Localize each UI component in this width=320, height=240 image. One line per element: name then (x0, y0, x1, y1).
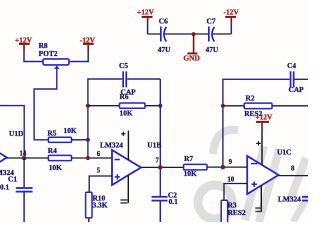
svg-text:C4: C4 (287, 61, 296, 70)
resistor R4 10K (48, 146, 72, 172)
svg-text:+12V: +12V (255, 112, 273, 121)
wire top rail (148, 33, 232, 35)
watermark (198, 130, 308, 222)
svg-text:C6: C6 (159, 17, 168, 26)
svg-text:C5: C5 (119, 61, 128, 70)
node output U1B (158, 165, 163, 170)
wire U1B feedback left rail (88, 79, 160, 158)
wire -12V to rail (230, 24, 232, 34)
capacitor C5 CAP (119, 61, 136, 97)
svg-text:U1C: U1C (277, 148, 291, 157)
capacitor C2 0.1 (152, 191, 179, 222)
svg-text:R7: R7 (184, 154, 193, 163)
resistor R7 10K (184, 154, 207, 178)
svg-text:10: 10 (227, 176, 234, 183)
power -12V (pot right) (80, 36, 96, 52)
svg-text:0.1: 0.1 (0, 183, 10, 192)
op-amp U1B LM324 (100, 141, 161, 185)
wire R4 right / pin6 (72, 157, 113, 159)
svg-text:POT2: POT2 (39, 49, 58, 58)
capacitor C1 0.1 (0, 158, 33, 222)
node R2 left (221, 104, 225, 108)
svg-text:R4: R4 (48, 146, 57, 155)
potentiometer R8 POT2 (39, 41, 69, 69)
wire R7 right / pin9 (207, 166, 247, 168)
svg-text:CAP: CAP (289, 85, 305, 94)
svg-text:GND: GND (183, 54, 199, 63)
resistor R10 3.3K (86, 192, 108, 222)
wire R5 right (72, 139, 88, 141)
wire U1B feedback right rail down to C2 (159, 79, 161, 196)
svg-text:U1D: U1D (9, 129, 23, 138)
capacitor C7 47U (206, 17, 219, 55)
node R6 left (86, 104, 90, 108)
U1B V- stub (120, 175, 128, 204)
svg-text:0.1: 0.1 (169, 197, 179, 206)
capacitor C6 47U (158, 17, 171, 55)
junction GND on rail (192, 32, 196, 36)
svg-text:8: 8 (291, 165, 295, 172)
wire pot right (69, 51, 88, 62)
power +12V (C6 left) (137, 8, 155, 24)
wire U1D feedback (0, 106, 24, 158)
svg-text:U1B: U1B (147, 141, 161, 150)
ground GND (183, 34, 199, 63)
wire U1C feedback left rail (223, 79, 308, 167)
wire U1C output pin8 (279, 175, 309, 177)
svg-text:R6: R6 (120, 92, 129, 101)
wire pin10 / R3 (224, 184, 247, 201)
power +12V (U1C) (255, 112, 273, 131)
svg-text:3.3K: 3.3K (93, 200, 108, 209)
resistor R2 RES2 (223, 94, 308, 119)
resistor R6 10K (88, 92, 160, 117)
svg-text:10K: 10K (49, 163, 62, 172)
svg-text:C7: C7 (207, 17, 216, 26)
svg-text:47U: 47U (206, 45, 219, 54)
svg-text:5: 5 (97, 168, 101, 175)
svg-text:R5: R5 (47, 128, 56, 137)
capacitor C3 (clipped at right edge) (302, 196, 308, 202)
svg-text:6: 6 (97, 151, 101, 158)
svg-text:10K: 10K (120, 109, 133, 118)
wire pot wiper (34, 69, 57, 140)
node pin9 (221, 165, 226, 170)
svg-text:+12V: +12V (137, 8, 155, 17)
svg-text:C1: C1 (8, 175, 17, 184)
svg-text:-12V: -12V (224, 8, 240, 17)
svg-text:7: 7 (156, 157, 160, 164)
U1B V+ stub (121, 131, 128, 160)
node U1D output (22, 156, 27, 161)
U1C V- stub (255, 186, 262, 213)
resistor R5 10K (47, 126, 76, 142)
svg-text:LM324: LM324 (100, 141, 123, 150)
wire pin5 / R10 (89, 176, 112, 192)
power +12V (pot left) (15, 36, 33, 52)
wire +12V to rail (147, 24, 149, 34)
svg-text:RES2: RES2 (228, 208, 246, 217)
svg-text:10K: 10K (184, 169, 197, 178)
resistor R3 RES2 (221, 200, 246, 224)
wire pot left (24, 51, 43, 62)
node R6 right (158, 104, 162, 108)
svg-text:9: 9 (229, 159, 233, 166)
svg-text:R2: R2 (246, 94, 255, 103)
wire U1B output (141, 166, 184, 168)
U1C V+ stub (256, 132, 262, 165)
op-amp U1C LM324 (247, 148, 301, 204)
svg-text:47U: 47U (158, 45, 171, 54)
svg-text:10K: 10K (64, 126, 77, 135)
node R4 right (86, 156, 90, 160)
capacitor C4 CAP (287, 61, 304, 94)
wire U1D output / R4 left (7, 157, 49, 159)
svg-text:LM324: LM324 (278, 195, 301, 204)
node R5 right (86, 138, 90, 142)
power -12V (C7 right) (224, 8, 240, 24)
op-amp U1D (clipped at left edge) (0, 129, 23, 177)
